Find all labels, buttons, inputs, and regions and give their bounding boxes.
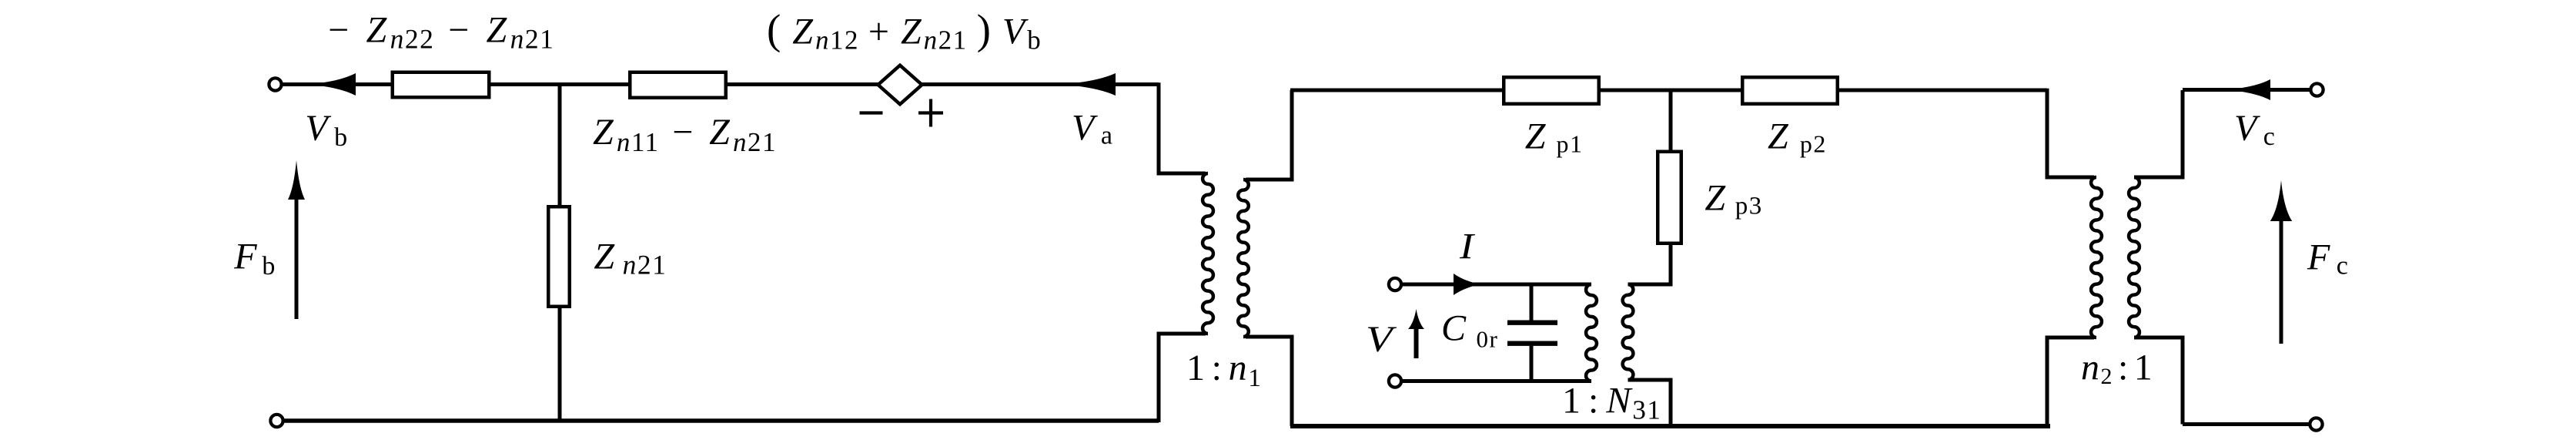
svg-text:n2:1: n2:1 (2081, 348, 2158, 390)
svg-text:Zp3: Zp3 (1705, 178, 1774, 220)
svg-text:Zp2: Zp2 (1768, 116, 1847, 158)
svg-text:C0r: C0r (1441, 307, 1518, 352)
svg-text:I: I (1459, 227, 1475, 267)
svg-text:Vb: Vb (305, 108, 360, 152)
svg-text:Vc: Vc (2234, 108, 2289, 151)
svg-text:Fb: Fb (233, 236, 283, 280)
svg-text:Va: Va (1072, 108, 1127, 150)
svg-text:1:n1: 1:n1 (1186, 348, 1262, 392)
svg-text:Fc: Fc (2307, 237, 2362, 280)
svg-text:(Zn12+Zn21)Vb: (Zn12+Zn21)Vb (767, 6, 1042, 55)
svg-text:Zp1: Zp1 (1525, 116, 1600, 158)
